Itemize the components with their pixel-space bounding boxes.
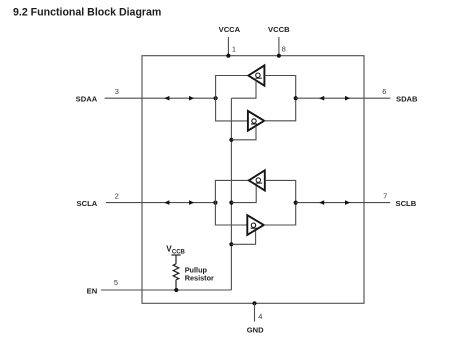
node SDAB junction [294,96,298,100]
arrow SCLB bidirectional right head [345,200,350,205]
svg-text:SDAB: SDAB [396,94,418,103]
buffer U1 (B to A, points left) [248,65,264,85]
wire EN rail vertical [230,98,232,290]
svg-text:2: 2 [115,191,119,200]
pin number 6 [382,87,386,96]
svg-text:CCB: CCB [172,249,186,255]
svg-text:4: 4 [258,312,262,321]
svg-text:SCLA: SCLA [77,199,98,208]
pin number 7 [383,191,387,200]
svg-text:SCLB: SCLB [396,199,417,208]
device outline box [142,56,364,304]
arrow SCLA bidirectional right head [189,200,194,205]
svg-text:VCCB: VCCB [268,25,290,34]
arrow SDAB bidirectional right head [345,96,350,101]
label SDAB [396,94,418,103]
pin number 3 [115,87,119,96]
wire SDAB lead [296,97,391,99]
label SDAA [76,94,98,103]
wire SCLB lead [296,202,391,204]
wire SCLA to U3 output [215,180,248,202]
label VCCA [219,25,241,34]
label VCCB supply [166,244,185,255]
svg-text:EN: EN [87,287,98,296]
wire U4 output to SCLB [264,203,296,225]
svg-text:5: 5 [114,278,118,287]
arrow SCLA bidirectional left head [164,200,169,205]
buffer U4 (A to B, points right) [247,215,263,235]
wire EN lead [101,289,231,291]
title [13,6,161,18]
svg-text:1: 1 [232,44,236,53]
pin 1 VCCA stub [227,37,229,56]
label VCCB [268,25,290,34]
resistor R1 pullup [173,255,179,290]
arrow SDAA bidirectional right head [189,96,194,101]
pin number 8 [282,44,286,53]
label SCLA [77,199,98,208]
svg-text:9.2 Functional Block Diagram: 9.2 Functional Block Diagram [13,6,161,18]
node SDAA junction [214,96,218,100]
wire U1 input from SDAB [264,76,295,99]
pin 4 GND stub [254,303,256,321]
node SCLA junction [213,201,217,205]
pin number 4 [258,312,262,321]
label EN [87,287,98,296]
arrow SCLB bidirectional left head [319,200,324,205]
node enable tap U4 [229,242,233,246]
pin number 2 [115,191,119,200]
pin 8 VCCB stub [278,37,280,56]
wire enable to U3 [231,185,256,202]
power terminal VCCB bar [171,254,180,256]
svg-text:8: 8 [282,44,286,53]
wire SDAA to U2 input [216,98,248,121]
wire SCLA to U4 input [215,203,247,225]
wire U2 output to SDAB [264,98,296,121]
node VCCA junction [226,54,230,58]
label GND [247,326,264,335]
wire enable to U2 [231,126,256,140]
node enable tap U3 [229,201,233,205]
wire SDAA lead [105,97,216,99]
wire enable to U4 [231,230,255,244]
buffer U2 (A to B, points right) [248,111,264,131]
wire enable to U1 [231,80,256,98]
svg-text:VCCA: VCCA [219,25,241,34]
wire SDAA to U1 output [216,76,249,99]
svg-text:GND: GND [247,326,264,335]
buffer U3 (B to A, points left) [249,170,265,190]
pin number 5 [114,278,118,287]
svg-text:Resistor: Resistor [185,273,214,282]
svg-text:3: 3 [115,87,119,96]
wire SCLA lead [106,202,215,204]
node SCLB junction [294,201,298,205]
arrow SDAA bidirectional left head [164,96,169,101]
node pullup junction [174,288,178,292]
pin number 1 [232,44,236,53]
svg-text:7: 7 [383,191,387,200]
wire U3 input from SCLB [265,180,296,202]
label Pullup Resistor [185,265,214,282]
node enable tap U2 [229,138,233,142]
node GND junction [252,301,256,305]
svg-text:SDAA: SDAA [76,94,98,103]
label SCLB [396,199,417,208]
svg-text:6: 6 [382,87,386,96]
node VCCB junction [277,54,281,58]
arrow SDAB bidirectional left head [319,96,324,101]
